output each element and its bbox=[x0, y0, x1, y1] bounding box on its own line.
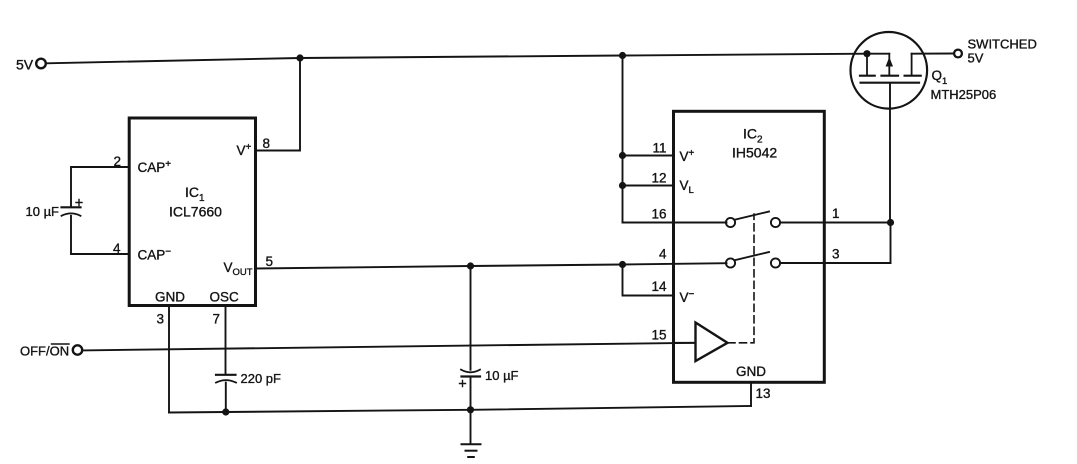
wire V+ pin 8 of IC1 bbox=[256, 58, 301, 151]
svg-text:4: 4 bbox=[659, 247, 667, 262]
wire CAP+ pin 2 bbox=[71, 167, 129, 207]
svg-text:MTH25P06: MTH25P06 bbox=[931, 87, 997, 102]
node OFF/ON input terminal bbox=[20, 344, 82, 359]
wire pin 3 riser to pin 1 node bbox=[890, 223, 892, 264]
svg-text:IH5042: IH5042 bbox=[732, 145, 777, 161]
wire ground stub bbox=[470, 410, 472, 444]
driver buffer A1 bbox=[674, 323, 728, 362]
IC2 name label bbox=[732, 126, 777, 161]
junction node pin 11 bbox=[619, 152, 626, 159]
capacitor C2 10uF bbox=[460, 370, 481, 387]
wire IC2 supply vertical bbox=[622, 56, 624, 223]
wire V- pin 14 branch bbox=[623, 265, 674, 296]
wire C2 top lead bbox=[470, 266, 472, 370]
svg-text:10 µF: 10 µF bbox=[26, 204, 60, 219]
junction node at pin 8 branch bbox=[296, 54, 303, 61]
wire pin 16 switch input bbox=[623, 222, 727, 224]
wire pin 12 VL bbox=[623, 185, 674, 187]
IC U1 ICL7660 box bbox=[129, 118, 255, 306]
dashed control line buffer to switches bbox=[728, 214, 754, 343]
switch S2 pole contacts bbox=[726, 252, 780, 268]
wire GND pin 3 of IC1 bbox=[168, 306, 170, 413]
wire 5V top rail bbox=[47, 54, 868, 64]
svg-text:ICL7660: ICL7660 bbox=[169, 204, 222, 220]
svg-text:GND: GND bbox=[736, 364, 766, 379]
svg-text:5V: 5V bbox=[16, 57, 34, 73]
svg-text:OSC: OSC bbox=[210, 290, 240, 305]
wire ground rail bottom bbox=[169, 406, 751, 413]
wire switch S2 to pin 3 bbox=[780, 262, 890, 264]
svg-text:12: 12 bbox=[651, 171, 666, 186]
svg-text:220 pF: 220 pF bbox=[241, 371, 282, 386]
svg-text:14: 14 bbox=[651, 279, 667, 294]
junction node pin 12 bbox=[619, 182, 626, 189]
IC U2 IH5042 box bbox=[674, 111, 825, 382]
junction node at IC2 supply branch bbox=[619, 52, 626, 59]
svg-text:16: 16 bbox=[651, 207, 666, 222]
svg-text:OFF/ON: OFF/ON bbox=[20, 344, 69, 359]
wire OFF/ON to pin 15 bbox=[83, 343, 696, 351]
wire C3 to ground rail bbox=[225, 383, 227, 412]
svg-text:5: 5 bbox=[266, 254, 274, 269]
svg-text:10 µF: 10 µF bbox=[485, 368, 519, 383]
svg-text:3: 3 bbox=[832, 247, 840, 262]
svg-text:7: 7 bbox=[212, 312, 220, 327]
wire OSC pin 7 to C3 bbox=[225, 306, 227, 374]
wire switch S1 to pin 1 bbox=[780, 222, 890, 224]
svg-text:13: 13 bbox=[756, 386, 771, 401]
wire pin 11 V+ bbox=[623, 155, 674, 157]
junction node source/body tie bbox=[863, 50, 870, 57]
wire Q1 drain to output bbox=[912, 53, 954, 55]
junction node VOUT / C2 bbox=[467, 262, 474, 269]
junction node C3 / ground rail bbox=[222, 408, 229, 415]
svg-text:8: 8 bbox=[263, 136, 271, 151]
ground symbol bbox=[462, 444, 481, 457]
capacitor C1 10uF bbox=[62, 200, 83, 216]
junction node pin 1 / gate bbox=[887, 219, 894, 226]
node 5V input terminal bbox=[16, 57, 46, 73]
wire VOUT pin 5 to pin 4 of IC2 bbox=[256, 263, 727, 268]
svg-text:SWITCHED: SWITCHED bbox=[968, 37, 1037, 52]
wire C2 bottom lead bbox=[470, 377, 472, 411]
junction node C2 / ground rail bbox=[467, 406, 474, 413]
svg-text:3: 3 bbox=[156, 312, 164, 327]
switch S1 pole contacts bbox=[726, 212, 780, 228]
svg-text:GND: GND bbox=[155, 290, 185, 305]
wire CAP- pin 4 bbox=[71, 216, 129, 254]
svg-text:11: 11 bbox=[652, 141, 666, 156]
IC1 name label bbox=[169, 184, 222, 220]
wire Q1 gate lead bbox=[889, 84, 891, 223]
svg-text:5V: 5V bbox=[968, 51, 984, 66]
node SWITCHED 5V output terminal bbox=[954, 37, 1037, 66]
wire pin 13 GND of IC2 bbox=[750, 383, 752, 407]
transistor Q1 MTH25P06 bbox=[851, 32, 928, 109]
svg-text:1: 1 bbox=[832, 206, 840, 221]
capacitor C3 220pF bbox=[216, 375, 236, 383]
svg-text:15: 15 bbox=[651, 328, 666, 343]
junction node VOUT / pin 4 bbox=[619, 261, 626, 268]
